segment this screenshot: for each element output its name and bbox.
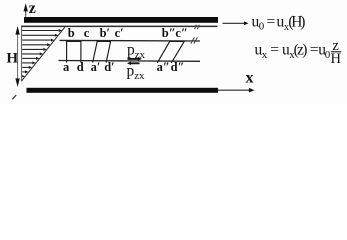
- H dimension top arrowhead: [15, 26, 19, 35]
- velocity arrow 1: [22, 30, 58, 32]
- velocity arrow 2: [22, 34, 55, 36]
- line under top plate (fluid surface): [21, 26, 218, 28]
- H dimension bottom arrowhead: [15, 78, 19, 87]
- z-axis arrowhead: [24, 3, 28, 11]
- velocity arrow 3: [22, 39, 51, 41]
- break tick 1 on element top line: [191, 37, 195, 43]
- svg-text:x: x: [246, 70, 254, 87]
- svg-text:a″: a″: [157, 60, 170, 74]
- svg-text:b: b: [68, 26, 75, 40]
- svg-text:H: H: [331, 51, 342, 67]
- svg-text:x: x: [262, 49, 268, 61]
- velocity arrow 4: [22, 44, 47, 46]
- H dimension line: [17, 29, 19, 83]
- svg-text:=: =: [267, 13, 276, 30]
- shear arrow pointing right (on lower line): [128, 58, 139, 60]
- velocity arrow 7: [22, 57, 36, 59]
- svg-text:H: H: [6, 51, 18, 67]
- fluid element a''b''c''d'' (parallelogram): [157, 41, 184, 62]
- fluid element abcd (rectangle): [67, 41, 81, 62]
- svg-text:a: a: [63, 60, 70, 74]
- svg-text:0: 0: [259, 20, 265, 32]
- velocity arrow 10: [22, 71, 25, 73]
- svg-text:d″: d″: [171, 60, 185, 74]
- velocity arrow 11: [21, 75, 24, 77]
- break tick 2 on upper line: [198, 25, 200, 30]
- z-axis line: [25, 10, 27, 17]
- velocity arrow 9: [22, 66, 28, 68]
- svg-text:z: z: [29, 0, 36, 17]
- svg-text:(H): (H): [288, 13, 305, 30]
- svg-text:d: d: [77, 60, 84, 74]
- svg-text:c: c: [84, 26, 90, 40]
- shear arrow pointing left (below lower line): [131, 62, 140, 64]
- svg-text:(z): (z): [294, 42, 308, 59]
- svg-text:b′: b′: [100, 26, 110, 40]
- velocity arrow 6: [22, 53, 39, 55]
- upper boundary line of fluid elements: [60, 39, 201, 42]
- velocity profile base vertical line: [21, 26, 23, 82]
- u0 arrow at top plate: [223, 22, 245, 24]
- bottom plate: [27, 88, 219, 93]
- velocity arrow 5: [22, 48, 43, 50]
- top plate: [24, 17, 218, 23]
- break tick 1 on upper line: [195, 25, 197, 30]
- svg-text:c″: c″: [175, 26, 187, 40]
- break tick 2 on element top line: [194, 37, 198, 43]
- fraction bar: [331, 51, 342, 53]
- velocity arrow 8: [22, 62, 32, 64]
- svg-text:a′: a′: [91, 60, 101, 74]
- slash mark bottom left: [12, 95, 16, 99]
- lower boundary line of fluid elements: [59, 60, 201, 63]
- svg-text:d′: d′: [104, 60, 114, 74]
- svg-text:c′: c′: [115, 26, 124, 40]
- svg-text:=: =: [270, 42, 279, 59]
- velocity profile diagonal: [22, 27, 66, 81]
- svg-text:b″: b″: [162, 26, 176, 40]
- x-axis line: [218, 89, 251, 91]
- fluid element a'b'c'd' (parallelogram): [93, 41, 111, 62]
- x-axis arrowhead: [249, 88, 255, 93]
